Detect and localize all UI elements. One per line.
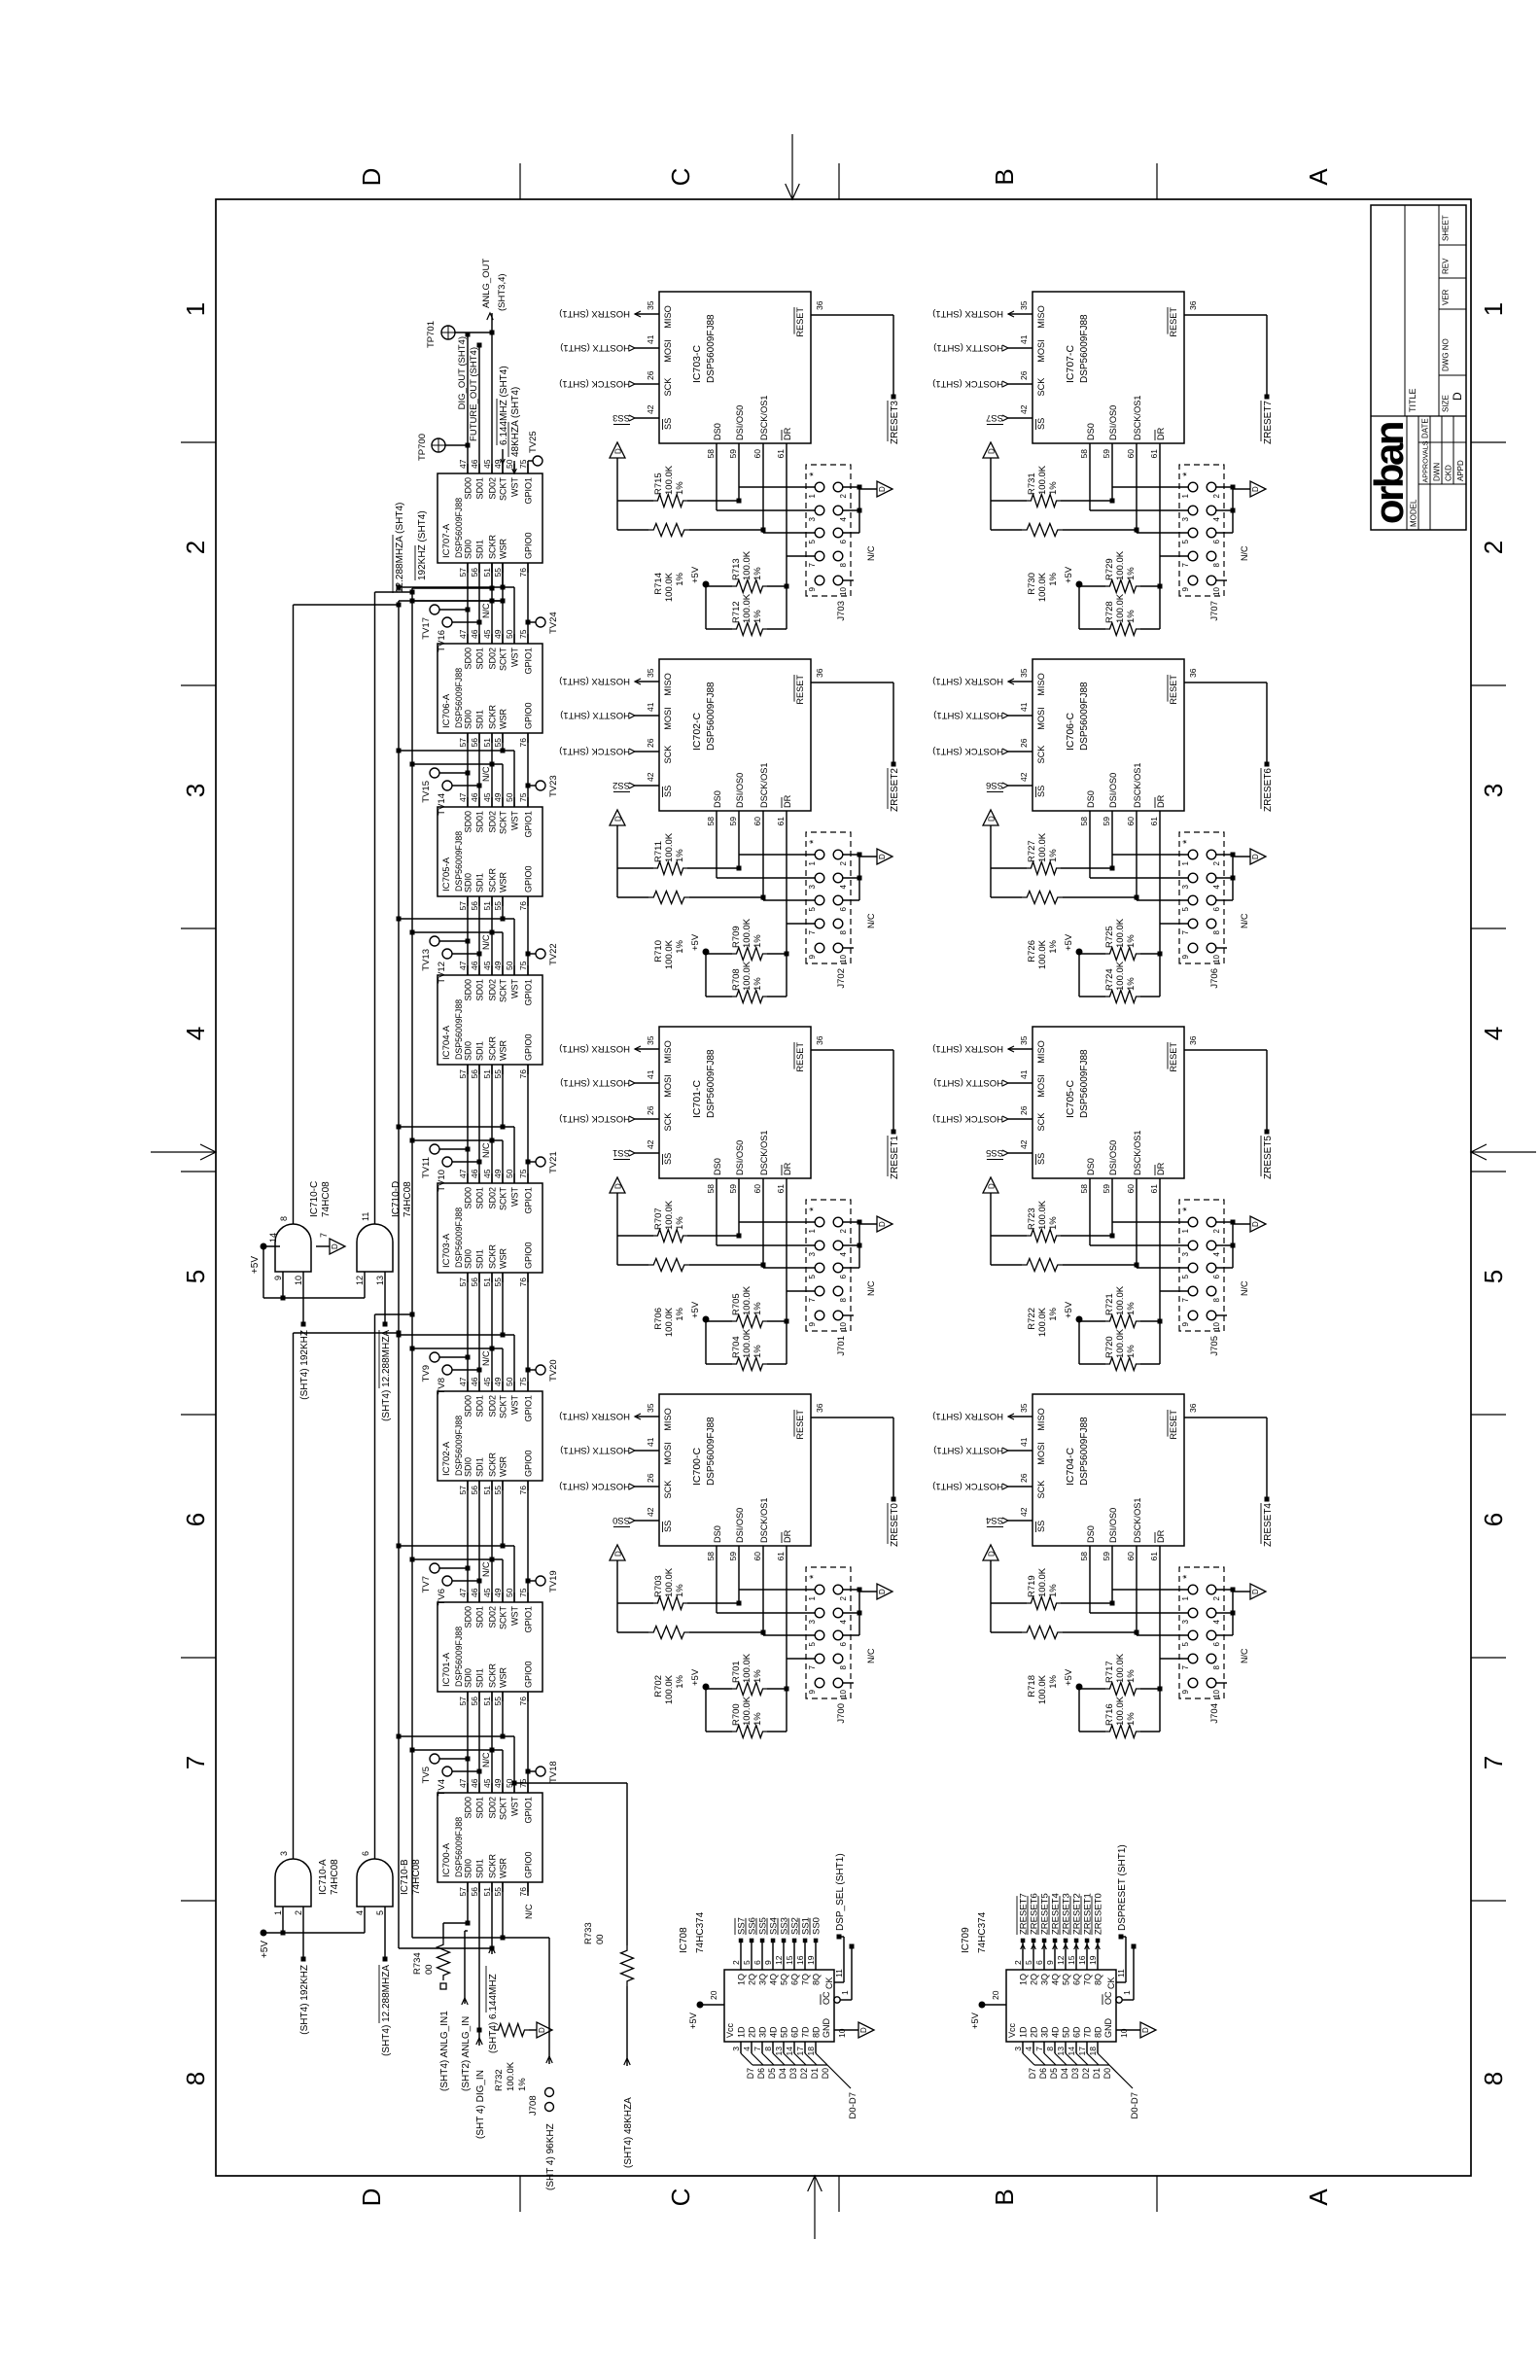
svg-text:5: 5: [808, 1274, 817, 1278]
svg-text:orban: orban: [1366, 422, 1412, 524]
svg-text:100.0K: 100.0K: [664, 1674, 675, 1704]
svg-text:45: 45: [482, 459, 492, 469]
svg-text:6: 6: [1034, 1960, 1044, 1965]
svg-text:SS: SS: [1036, 1153, 1046, 1165]
svg-text:*: *: [1181, 1574, 1193, 1579]
svg-text:8Q: 8Q: [1094, 1974, 1103, 1985]
svg-text:+5V: +5V: [690, 933, 701, 951]
svg-text:DR: DR: [1156, 794, 1166, 808]
svg-text:5: 5: [181, 1270, 210, 1283]
svg-text:59: 59: [728, 1552, 738, 1561]
svg-text:100.0K: 100.0K: [1115, 593, 1126, 623]
svg-text:8: 8: [839, 929, 848, 934]
svg-text:5: 5: [808, 906, 817, 911]
svg-text:N/C: N/C: [481, 603, 491, 618]
svg-text:1%: 1%: [752, 567, 763, 580]
svg-text:IC707-A: IC707-A: [441, 523, 452, 558]
svg-text:1: 1: [808, 1228, 817, 1233]
svg-text:41: 41: [1019, 702, 1029, 712]
svg-text:7Q: 7Q: [801, 1974, 811, 1985]
svg-text:SS0: SS0: [612, 1515, 630, 1525]
svg-text:8D: 8D: [812, 2026, 822, 2038]
svg-text:J706: J706: [1209, 968, 1220, 989]
svg-text:CK: CK: [824, 1977, 834, 1989]
svg-text:*: *: [808, 1574, 820, 1579]
svg-text:5: 5: [808, 1641, 817, 1646]
svg-text:IC704-C: IC704-C: [1065, 1447, 1076, 1486]
svg-text:48KHZA (SHT4): 48KHZA (SHT4): [510, 387, 521, 457]
svg-text:MISO: MISO: [663, 305, 673, 328]
svg-text:2: 2: [731, 1960, 741, 1965]
svg-text:61: 61: [776, 1552, 786, 1561]
svg-text:58: 58: [1079, 1552, 1089, 1561]
svg-text:R700: R700: [731, 1703, 742, 1726]
svg-text:10: 10: [839, 1689, 848, 1697]
svg-text:SDI0: SDI0: [464, 540, 473, 559]
svg-text:J701: J701: [836, 1336, 847, 1356]
svg-text:8: 8: [839, 562, 848, 567]
svg-text:D: D: [988, 448, 997, 454]
svg-text:1: 1: [1181, 1228, 1190, 1233]
svg-text:TV12: TV12: [437, 962, 447, 984]
svg-text:6: 6: [839, 906, 848, 911]
svg-text:57: 57: [458, 1887, 468, 1897]
svg-text:J703: J703: [836, 601, 847, 621]
svg-text:49: 49: [493, 1778, 503, 1788]
svg-text:61: 61: [776, 817, 786, 826]
svg-text:+5V: +5V: [970, 2012, 981, 2029]
svg-text:55: 55: [493, 1069, 503, 1079]
svg-text:11: 11: [834, 1969, 844, 1977]
svg-text:26: 26: [1019, 1105, 1029, 1115]
svg-text:R715: R715: [653, 472, 664, 495]
svg-text:+5V: +5V: [688, 2012, 699, 2029]
svg-text:R726: R726: [1027, 940, 1037, 962]
svg-text:+5V: +5V: [1064, 1668, 1074, 1686]
svg-text:D4: D4: [1060, 2068, 1069, 2079]
svg-text:R709: R709: [731, 926, 742, 948]
svg-text:R732: R732: [494, 2069, 505, 2091]
svg-text:4D: 4D: [769, 2026, 779, 2038]
svg-text:75: 75: [518, 1588, 528, 1597]
svg-text:DSI/OS0: DSI/OS0: [735, 405, 745, 440]
svg-text:SS: SS: [1036, 418, 1046, 430]
svg-text:14: 14: [785, 2047, 794, 2056]
svg-text:WST: WST: [510, 1395, 520, 1415]
svg-text:*: *: [1181, 1207, 1193, 1211]
svg-text:46: 46: [470, 1377, 479, 1386]
svg-text:SDI1: SDI1: [475, 873, 485, 892]
svg-text:WSR: WSR: [499, 1248, 508, 1269]
svg-text:R728: R728: [1104, 601, 1115, 623]
svg-text:4: 4: [1479, 1027, 1508, 1040]
svg-text:DS0: DS0: [1086, 1158, 1096, 1175]
svg-text:2: 2: [1479, 541, 1508, 554]
svg-text:SS0: SS0: [812, 1917, 822, 1935]
svg-text:D: D: [988, 816, 997, 822]
svg-text:(SHT4) 192KHZ: (SHT4) 192KHZ: [299, 1330, 310, 1400]
svg-text:5D: 5D: [1062, 2026, 1071, 2038]
svg-text:1%: 1%: [752, 1669, 763, 1683]
svg-text:N/C: N/C: [481, 1752, 491, 1767]
svg-text:SD02: SD02: [488, 1187, 498, 1209]
svg-text:9: 9: [808, 954, 817, 959]
svg-text:100.0K: 100.0K: [1115, 1653, 1126, 1683]
svg-text:D5: D5: [767, 2068, 777, 2079]
svg-text:7D: 7D: [1083, 2026, 1093, 2038]
svg-text:WSR: WSR: [499, 1858, 508, 1878]
svg-text:N/C: N/C: [1240, 913, 1249, 928]
svg-text:ZRESET1: ZRESET1: [890, 1136, 900, 1179]
svg-text:1%: 1%: [1048, 939, 1059, 953]
svg-text:5: 5: [1181, 1274, 1190, 1278]
svg-text:R708: R708: [731, 968, 742, 991]
svg-text:9: 9: [273, 1276, 283, 1280]
svg-text:TV18: TV18: [548, 1761, 559, 1783]
svg-text:SDI0: SDI0: [464, 1249, 473, 1269]
svg-text:2: 2: [839, 493, 848, 498]
svg-text:RESET: RESET: [1169, 1042, 1178, 1072]
svg-text:49: 49: [493, 1169, 503, 1178]
svg-text:1%: 1%: [1126, 1712, 1137, 1726]
svg-text:6: 6: [752, 1960, 762, 1965]
svg-text:R717: R717: [1104, 1661, 1115, 1683]
svg-text:60: 60: [752, 1184, 762, 1194]
svg-text:IC708: IC708: [679, 1927, 689, 1953]
svg-text:SDI1: SDI1: [475, 1668, 485, 1688]
svg-text:D: D: [331, 1243, 339, 1249]
svg-text:41: 41: [1019, 1437, 1029, 1447]
svg-text:35: 35: [646, 1403, 655, 1413]
svg-text:N/C: N/C: [866, 913, 876, 928]
svg-text:N/C: N/C: [866, 1280, 876, 1296]
svg-text:DSP56009FJ88: DSP56009FJ88: [454, 498, 464, 558]
svg-text:SS7: SS7: [986, 412, 1003, 423]
svg-text:57: 57: [458, 1697, 468, 1706]
svg-text:R724: R724: [1104, 968, 1115, 991]
svg-text:DSP56009FJ88: DSP56009FJ88: [1079, 682, 1090, 751]
svg-text:4: 4: [742, 2047, 752, 2051]
svg-text:RESET: RESET: [795, 675, 805, 705]
svg-text:13: 13: [774, 2047, 784, 2056]
svg-text:5Q: 5Q: [780, 1974, 789, 1985]
svg-text:+5V: +5V: [1064, 1301, 1074, 1318]
svg-text:100.0K: 100.0K: [1115, 1285, 1126, 1315]
svg-text:GPIO1: GPIO1: [524, 1187, 534, 1214]
svg-text:35: 35: [646, 300, 655, 310]
svg-text:4: 4: [1212, 1251, 1221, 1256]
svg-text:MISO: MISO: [663, 1040, 673, 1063]
svg-text:1%: 1%: [1126, 610, 1137, 623]
svg-text:DWN: DWN: [1433, 463, 1442, 481]
svg-text:7: 7: [808, 1297, 817, 1302]
svg-text:GPIO0: GPIO0: [524, 1661, 534, 1688]
svg-text:57: 57: [458, 901, 468, 911]
svg-text:58: 58: [1079, 1184, 1089, 1194]
svg-text:TV19: TV19: [548, 1570, 559, 1592]
svg-text:1%: 1%: [1048, 849, 1059, 862]
svg-text:D7: D7: [746, 2068, 755, 2079]
svg-text:ZRESET4: ZRESET4: [1263, 1503, 1274, 1547]
svg-text:SD00: SD00: [464, 1606, 473, 1628]
svg-text:HOSTTX (SHT1): HOSTTX (SHT1): [560, 1445, 630, 1455]
svg-text:DSCK/OS1: DSCK/OS1: [759, 396, 769, 440]
svg-text:4: 4: [839, 1251, 848, 1256]
svg-text:MISO: MISO: [1036, 673, 1046, 695]
svg-text:1%: 1%: [752, 1302, 763, 1315]
svg-text:1%: 1%: [1126, 567, 1137, 580]
svg-text:58: 58: [706, 817, 716, 826]
svg-text:N/C: N/C: [481, 1142, 491, 1158]
svg-text:R705: R705: [731, 1293, 742, 1315]
svg-text:D2: D2: [1081, 2068, 1091, 2079]
svg-text:SCKT: SCKT: [499, 647, 508, 672]
svg-text:46: 46: [470, 629, 479, 639]
svg-text:SDI1: SDI1: [475, 1041, 485, 1061]
svg-text:12: 12: [774, 1955, 784, 1965]
svg-text:1%: 1%: [1126, 1669, 1137, 1683]
svg-text:3D: 3D: [758, 2026, 768, 2038]
svg-text:76: 76: [518, 1887, 528, 1897]
svg-text:41: 41: [646, 1437, 655, 1447]
svg-text:SD01: SD01: [475, 1797, 485, 1819]
svg-text:76: 76: [518, 1486, 528, 1495]
svg-text:56: 56: [470, 568, 479, 577]
svg-text:49: 49: [493, 1377, 503, 1386]
svg-text:76: 76: [518, 1277, 528, 1287]
svg-text:TV15: TV15: [421, 781, 432, 803]
svg-text:2: 2: [1212, 493, 1221, 498]
svg-text:SD01: SD01: [475, 647, 485, 670]
svg-text:SS3: SS3: [612, 412, 630, 423]
svg-text:DR: DR: [1156, 1529, 1166, 1543]
svg-text:R710: R710: [653, 940, 664, 962]
svg-text:WSR: WSR: [499, 1456, 508, 1477]
svg-text:60: 60: [752, 817, 762, 826]
svg-text:1%: 1%: [1048, 481, 1059, 495]
svg-text:7: 7: [808, 562, 817, 567]
svg-text:J704: J704: [1209, 1703, 1220, 1724]
svg-text:50: 50: [505, 459, 514, 469]
svg-text:HOSTCK (SHT1): HOSTCK (SHT1): [932, 378, 1003, 389]
svg-text:8: 8: [1212, 1664, 1221, 1669]
svg-text:58: 58: [706, 1184, 716, 1194]
svg-text:TV6: TV6: [437, 1589, 447, 1605]
svg-text:61: 61: [776, 449, 786, 459]
svg-text:2: 2: [839, 1228, 848, 1233]
svg-text:D3: D3: [788, 2068, 798, 2079]
svg-text:100.0K: 100.0K: [742, 961, 752, 991]
svg-text:13: 13: [1056, 2047, 1066, 2056]
svg-text:100.0K: 100.0K: [664, 939, 675, 969]
svg-text:HOSTCK (SHT1): HOSTCK (SHT1): [932, 746, 1003, 756]
svg-text:+5V: +5V: [1064, 933, 1074, 951]
svg-text:HOSTTX (SHT1): HOSTTX (SHT1): [933, 710, 1003, 720]
svg-text:WST: WST: [510, 477, 520, 497]
svg-text:4: 4: [1212, 884, 1221, 889]
svg-text:SCKT: SCKT: [499, 1187, 508, 1211]
svg-text:*: *: [1181, 472, 1193, 476]
svg-text:6: 6: [839, 1641, 848, 1646]
svg-text:10: 10: [1212, 1689, 1221, 1697]
svg-text:26: 26: [646, 370, 655, 380]
svg-text:5: 5: [1024, 1960, 1033, 1965]
svg-text:D: D: [878, 1221, 887, 1227]
svg-text:DSP56009FJ88: DSP56009FJ88: [706, 682, 717, 751]
svg-text:36: 36: [1188, 1403, 1198, 1413]
svg-text:56: 56: [470, 901, 479, 911]
svg-text:D: D: [614, 1551, 623, 1557]
svg-text:100.0K: 100.0K: [1037, 1567, 1048, 1597]
svg-text:GPIO0: GPIO0: [524, 1033, 534, 1061]
svg-text:45: 45: [482, 1588, 492, 1597]
svg-text:HOSTCK (SHT1): HOSTCK (SHT1): [559, 1113, 630, 1124]
svg-text:HOSTCK (SHT1): HOSTCK (SHT1): [932, 1481, 1003, 1491]
svg-text:6D: 6D: [790, 2026, 800, 2038]
svg-text:3: 3: [1181, 884, 1190, 889]
svg-text:SCKT: SCKT: [499, 477, 508, 502]
svg-text:60: 60: [1126, 449, 1136, 459]
svg-text:SS2: SS2: [612, 780, 630, 790]
svg-text:9: 9: [808, 1689, 817, 1694]
svg-text:35: 35: [1019, 668, 1029, 678]
svg-text:TP701: TP701: [426, 321, 437, 348]
svg-text:IC705-C: IC705-C: [1065, 1079, 1076, 1118]
svg-text:47: 47: [458, 961, 468, 970]
svg-text:4: 4: [1212, 1619, 1221, 1624]
svg-text:SDI1: SDI1: [475, 1859, 485, 1878]
svg-text:GPIO1: GPIO1: [524, 1606, 534, 1633]
svg-text:12.288MHZA (SHT4): 12.288MHZA (SHT4): [395, 503, 405, 593]
svg-text:61: 61: [1149, 817, 1159, 826]
svg-text:IC706-A: IC706-A: [441, 693, 452, 728]
svg-text:47: 47: [458, 629, 468, 639]
svg-text:42: 42: [646, 404, 655, 414]
svg-text:50: 50: [505, 1377, 514, 1386]
svg-text:SDI0: SDI0: [464, 1457, 473, 1477]
svg-text:SDI0: SDI0: [464, 1859, 473, 1878]
svg-text:14: 14: [1067, 2047, 1076, 2056]
svg-text:D: D: [538, 2027, 546, 2033]
svg-text:17: 17: [795, 2047, 805, 2056]
svg-text:2Q: 2Q: [748, 1974, 757, 1985]
svg-text:R721: R721: [1104, 1293, 1115, 1315]
svg-text:J708: J708: [528, 2095, 539, 2116]
svg-text:N/C: N/C: [1240, 1648, 1249, 1663]
svg-text:7Q: 7Q: [1083, 1974, 1093, 1985]
svg-text:45: 45: [482, 1169, 492, 1178]
svg-text:DSP56009FJ88: DSP56009FJ88: [706, 314, 717, 383]
svg-text:GPIO1: GPIO1: [524, 811, 534, 838]
svg-text:IC710-C: IC710-C: [309, 1181, 320, 1217]
svg-text:47: 47: [458, 792, 468, 802]
svg-text:N/C: N/C: [1240, 1280, 1249, 1296]
svg-text:(SHT4) 192KHZ: (SHT4) 192KHZ: [299, 1965, 310, 2035]
svg-text:1%: 1%: [1048, 1584, 1059, 1597]
svg-text:100.0K: 100.0K: [664, 1200, 675, 1230]
svg-text:100.0K: 100.0K: [1115, 550, 1126, 580]
svg-text:4Q: 4Q: [769, 1974, 779, 1985]
svg-text:11: 11: [1116, 1969, 1126, 1977]
svg-text:SCKT: SCKT: [499, 1797, 508, 1821]
svg-text:74HC08: 74HC08: [330, 1859, 340, 1895]
svg-text:76: 76: [518, 1697, 528, 1706]
svg-text:51: 51: [482, 568, 492, 577]
svg-text:100.0K: 100.0K: [1037, 572, 1048, 602]
svg-text:HOSTTX (SHT1): HOSTTX (SHT1): [933, 342, 1003, 353]
svg-text:5: 5: [808, 539, 817, 543]
svg-text:DSP56009FJ88: DSP56009FJ88: [1079, 314, 1090, 383]
svg-text:HOSTCK (SHT1): HOSTCK (SHT1): [559, 746, 630, 756]
svg-text:TV23: TV23: [548, 775, 559, 797]
svg-text:10: 10: [839, 1321, 848, 1330]
svg-text:36: 36: [815, 1403, 824, 1413]
svg-text:10: 10: [1212, 1321, 1221, 1330]
svg-text:D: D: [859, 2027, 868, 2033]
svg-text:SCKT: SCKT: [499, 811, 508, 835]
svg-text:+5V: +5V: [260, 1941, 270, 1958]
svg-text:75: 75: [518, 1377, 528, 1386]
svg-text:GPIO0: GPIO0: [524, 702, 534, 729]
svg-text:R713: R713: [731, 558, 742, 580]
svg-text:100.0K: 100.0K: [1037, 832, 1048, 862]
svg-text:R704: R704: [731, 1336, 742, 1358]
svg-text:3: 3: [1479, 784, 1508, 797]
svg-text:47: 47: [458, 459, 468, 469]
svg-text:IC709: IC709: [961, 1927, 971, 1953]
svg-text:MISO: MISO: [663, 1408, 673, 1430]
svg-text:58: 58: [706, 449, 716, 459]
svg-text:1Q: 1Q: [737, 1974, 747, 1985]
svg-text:15: 15: [1067, 1955, 1076, 1965]
svg-text:SS: SS: [663, 786, 673, 797]
svg-text:42: 42: [1019, 1507, 1029, 1517]
svg-text:D: D: [1251, 1221, 1260, 1227]
svg-text:D: D: [357, 2188, 386, 2207]
svg-text:Vcc: Vcc: [1007, 2022, 1017, 2038]
svg-text:R714: R714: [653, 573, 664, 595]
svg-text:D1: D1: [1092, 2068, 1102, 2079]
svg-text:TV21: TV21: [548, 1151, 559, 1173]
svg-text:IC701-A: IC701-A: [441, 1652, 452, 1687]
svg-text:7: 7: [1181, 1664, 1190, 1669]
svg-text:9: 9: [808, 586, 817, 591]
svg-text:HOSTCK (SHT1): HOSTCK (SHT1): [559, 378, 630, 389]
svg-text:2D: 2D: [1030, 2026, 1039, 2038]
svg-text:51: 51: [482, 901, 492, 911]
svg-text:50: 50: [505, 629, 514, 639]
svg-text:6Q: 6Q: [1072, 1974, 1082, 1985]
svg-text:3: 3: [731, 2047, 741, 2051]
svg-text:36: 36: [1188, 300, 1198, 310]
svg-text:WSR: WSR: [499, 1040, 508, 1061]
svg-text:8: 8: [181, 2072, 210, 2085]
svg-text:10: 10: [839, 586, 848, 595]
svg-text:9: 9: [1181, 1321, 1190, 1326]
svg-text:SDI1: SDI1: [475, 1457, 485, 1477]
svg-text:3: 3: [808, 1251, 817, 1256]
svg-text:RESET: RESET: [795, 1410, 805, 1440]
svg-text:HOSTCK (SHT1): HOSTCK (SHT1): [932, 1113, 1003, 1124]
svg-text:76: 76: [518, 901, 528, 911]
svg-text:1%: 1%: [675, 849, 685, 862]
svg-text:4: 4: [839, 1619, 848, 1624]
svg-text:5: 5: [375, 1910, 385, 1915]
svg-text:TV25: TV25: [528, 431, 539, 453]
svg-text:SCKR: SCKR: [488, 1662, 498, 1688]
svg-text:DS0: DS0: [1086, 1525, 1096, 1543]
svg-text:(SHT4) ANLG_IN1: (SHT4) ANLG_IN1: [439, 2011, 450, 2091]
